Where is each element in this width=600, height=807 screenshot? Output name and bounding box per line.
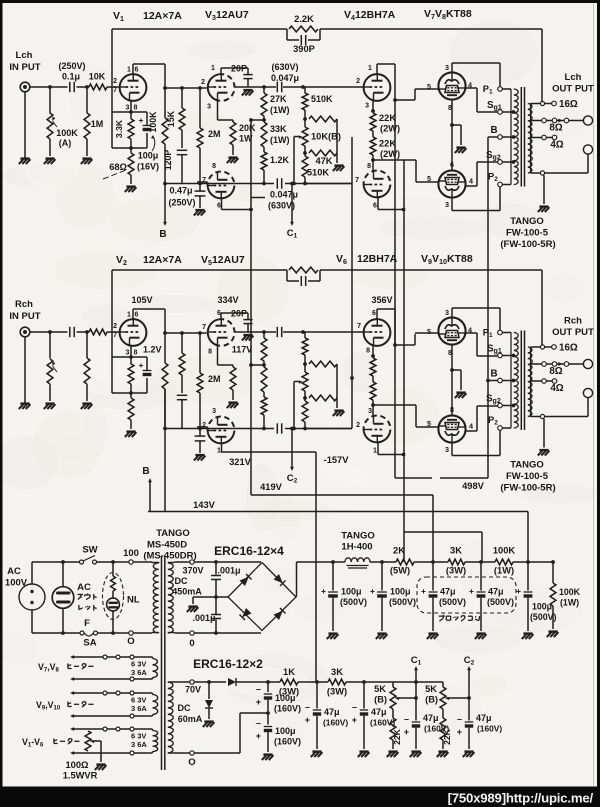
potentiometer 100ohm hum balance xyxy=(85,731,91,751)
svg-text:+: + xyxy=(469,586,474,596)
svg-text:0.47μ: 0.47μ xyxy=(169,186,192,196)
diode bias clamp xyxy=(208,682,210,699)
switch SW xyxy=(80,560,84,564)
resistor Rch cathode 3.3K xyxy=(130,357,132,364)
svg-text:7: 7 xyxy=(202,324,206,331)
resistor Rch grid 2M next stage xyxy=(199,333,201,373)
wire -157V drop line xyxy=(315,452,317,682)
wire Rch B terminal link xyxy=(488,380,498,382)
wire Lch NFB riser to 16ohm tap xyxy=(541,29,543,104)
svg-text:ERC16-12×4: ERC16-12×4 xyxy=(214,544,284,558)
svg-text:4: 4 xyxy=(469,422,473,431)
svg-text:4: 4 xyxy=(469,177,473,186)
svg-text:6: 6 xyxy=(373,203,377,210)
svg-text:20K: 20K xyxy=(239,123,256,133)
capacitor Rch input 0.1u xyxy=(69,327,71,337)
svg-text:(16V): (16V) xyxy=(137,162,159,172)
wire B supply riser with arrow xyxy=(149,481,151,512)
capacitor Rch coupling 0.047u xyxy=(276,327,278,337)
node Rch P1 terminal xyxy=(498,330,503,335)
wire bridge DC- to ground xyxy=(193,596,228,598)
svg-text:SW: SW xyxy=(82,545,97,556)
svg-text:MS-450D: MS-450D xyxy=(147,540,187,551)
wire V3 cathode to 20K xyxy=(217,101,219,120)
wire HV secondary bottom xyxy=(175,632,262,634)
bottom black banner xyxy=(0,787,600,807)
svg-text:+: + xyxy=(370,586,375,596)
capacitor 47u 500V block 1 xyxy=(432,562,434,591)
svg-text:1: 1 xyxy=(368,65,372,72)
svg-text:47μ: 47μ xyxy=(324,707,340,717)
wire heater V1-V6 top xyxy=(72,728,150,730)
svg-text:3 6A: 3 6A xyxy=(131,704,147,713)
svg-text:(160V): (160V) xyxy=(323,718,348,728)
wire 3K to pots xyxy=(346,681,443,683)
capacitor Lch rail bypass 0.47u xyxy=(199,184,201,191)
svg-text:+: + xyxy=(321,586,326,596)
svg-text:1: 1 xyxy=(489,332,493,339)
svg-text:321V: 321V xyxy=(229,457,252,467)
svg-text:3: 3 xyxy=(212,408,216,415)
wire choke to 2K xyxy=(370,561,396,563)
wire Rch rail right extension xyxy=(305,428,352,430)
svg-text:Lch: Lch xyxy=(565,72,582,83)
capacitor Lch coupling 0.047u xyxy=(276,82,278,92)
wire 100K to right node xyxy=(513,561,553,563)
svg-text:+: + xyxy=(139,360,144,370)
resistor 2K 5W xyxy=(396,559,414,565)
ground Lch volume pot xyxy=(45,157,54,159)
svg-text:+: + xyxy=(256,697,261,707)
svg-text:(250V): (250V) xyxy=(168,198,195,208)
tube V5 12AU7 lower section xyxy=(208,433,234,444)
node Lch B terminal xyxy=(498,135,503,140)
wire Lch 22K junction to V8 grid xyxy=(373,159,416,161)
wire Lch 100K bottom to rail xyxy=(164,144,166,184)
svg-text:(630V): (630V) xyxy=(271,62,298,72)
diode bridge D1 xyxy=(240,577,249,586)
wire 419V bus xyxy=(251,494,433,496)
resistor 22K bias 1 xyxy=(392,709,394,718)
wire outlet leads xyxy=(62,562,64,587)
svg-text:7: 7 xyxy=(355,177,359,184)
svg-text:TANGO: TANGO xyxy=(156,528,190,539)
transformer MS-450D HV secondary winding xyxy=(168,563,173,633)
svg-text:1.2V: 1.2V xyxy=(143,345,162,355)
svg-text:47μ: 47μ xyxy=(488,587,504,597)
node C-bias feed C2 xyxy=(290,427,294,431)
resistor Lch NFB 2.2K xyxy=(289,26,318,32)
ground Lch 68ohm xyxy=(126,185,135,187)
paper mottling xyxy=(158,112,238,132)
ground hum pot xyxy=(96,763,105,765)
wire Lch KT88 upper plate to P1 xyxy=(451,63,453,72)
node 100 tap xyxy=(129,560,133,564)
wire Rch NFB bus xyxy=(112,269,287,271)
svg-text:1: 1 xyxy=(217,448,221,455)
ground V5 20P xyxy=(243,334,252,336)
svg-text:15K: 15K xyxy=(166,110,176,127)
right margin scan line xyxy=(593,0,595,786)
svg-text:510K: 510K xyxy=(311,94,333,104)
wire bridge DC+ output xyxy=(296,562,298,597)
svg-text:3.3K: 3.3K xyxy=(114,119,124,138)
svg-text:7: 7 xyxy=(357,323,361,330)
wire Rch V1 plate to coupling node xyxy=(132,309,134,319)
ground Rch volume pot xyxy=(45,402,54,404)
svg-text:(FW-100-5R): (FW-100-5R) xyxy=(500,239,555,250)
capacitor Rch cathode bypass 100u xyxy=(143,370,152,372)
wire V3 plate top to 20P xyxy=(220,68,222,74)
transformer Rch primary winding xyxy=(510,333,512,429)
svg-text:Rch: Rch xyxy=(564,316,582,327)
capacitor Rch rail bypass 0.47u xyxy=(199,429,201,436)
resistor Lch 33K xyxy=(263,116,265,122)
node Rch 8ohm binding post xyxy=(583,359,592,368)
neon lamp NL dashed enclosure xyxy=(103,573,124,620)
svg-text:4Ω: 4Ω xyxy=(550,383,563,394)
resistor Lch bridge top xyxy=(309,116,337,122)
resistor Lch plate load 100K xyxy=(164,88,166,118)
transformer heater winding V9V10 xyxy=(153,695,158,715)
capacitor 47u 160V bias 2 xyxy=(363,682,365,709)
svg-text:27K: 27K xyxy=(270,94,287,104)
wire Lch first stage signal rail xyxy=(165,87,207,89)
tube V1 12AX7 input triode xyxy=(120,74,147,101)
svg-text:8: 8 xyxy=(367,163,371,170)
svg-text:8Ω: 8Ω xyxy=(549,122,562,133)
ground bias clamp xyxy=(204,720,213,722)
svg-text:12BH7A: 12BH7A xyxy=(357,253,398,265)
svg-text:5: 5 xyxy=(427,174,431,183)
ground Rch secondary xyxy=(539,449,548,451)
svg-text:3: 3 xyxy=(445,200,449,209)
capacitor V5 20P xyxy=(243,319,252,321)
wire V6 lower grid stub xyxy=(372,405,374,416)
wire Rch cathode link to lower tube xyxy=(451,370,453,415)
wire V6 lower plate loop xyxy=(377,442,379,454)
wire Lch bias jog xyxy=(251,197,265,199)
tube V4 12BH7A upper xyxy=(364,74,391,101)
svg-text:8: 8 xyxy=(450,405,454,414)
capacitor .001u lower xyxy=(214,631,218,635)
wire Rch lower rail xyxy=(165,428,274,430)
node Lch Sg1 terminal xyxy=(498,110,503,115)
svg-text:47μ: 47μ xyxy=(371,707,387,717)
svg-text:B: B xyxy=(490,125,497,136)
svg-text:6: 6 xyxy=(450,160,454,169)
ground bias cap 2 xyxy=(359,750,368,752)
tube V3 12AU7 lower section xyxy=(208,188,234,199)
svg-text:O: O xyxy=(127,636,134,647)
svg-text:2: 2 xyxy=(113,78,117,85)
wire Lch KT88 upper screen to Sg1 xyxy=(466,87,477,89)
svg-text:+: + xyxy=(139,115,144,125)
svg-text:[750x989]http://upic.me/: [750x989]http://upic.me/ xyxy=(448,791,594,806)
node Lch pot bridge top xyxy=(303,117,307,121)
capacitor 100u 500V third filter xyxy=(527,562,529,591)
resistor Lch feedback 68ohm xyxy=(130,148,132,153)
ground Lch 1M xyxy=(82,157,91,159)
svg-text:419V: 419V xyxy=(260,482,283,492)
resistor Rch 47K bridge bottom xyxy=(309,395,337,401)
svg-text:1.2K: 1.2K xyxy=(270,155,290,165)
svg-text:20P: 20P xyxy=(231,309,247,319)
tube V8 KT88 lower xyxy=(438,170,465,197)
wire diode to doubler xyxy=(236,681,280,683)
svg-text:3: 3 xyxy=(126,105,130,112)
resistor Lch 510K upper xyxy=(304,87,306,93)
resistor Lch 22K lower xyxy=(372,131,374,137)
ground Lch input jack xyxy=(20,157,29,159)
ground C2 cap xyxy=(464,750,473,752)
wire Rch jack ground stem xyxy=(24,337,26,403)
capacitor Lch 120P xyxy=(177,149,187,151)
ground second filter xyxy=(377,632,386,634)
resistor 3K 3W xyxy=(448,559,465,565)
svg-text:33K: 33K xyxy=(270,124,287,134)
svg-text:O: O xyxy=(188,757,195,768)
svg-text:0: 0 xyxy=(189,638,194,649)
ground bleeder xyxy=(548,630,557,632)
wire Lch KT88 upper cathode xyxy=(451,100,453,125)
wire driver B+ branch Rch xyxy=(251,364,264,366)
capacitor 100u 500V second filter xyxy=(380,560,384,564)
node Rch Sg2 terminal xyxy=(498,403,503,408)
wire Lch B terminal link xyxy=(488,136,498,138)
svg-text:47μ: 47μ xyxy=(423,713,439,723)
ground Rch 1M xyxy=(82,402,91,404)
resistor Rch grid leak 1M xyxy=(85,330,89,334)
fuse F xyxy=(80,631,84,635)
wire Lch input to grid xyxy=(30,86,68,88)
ground third filter xyxy=(523,632,532,634)
tube V2 12AX7 input triode xyxy=(120,319,147,346)
scan border frame xyxy=(0,0,600,3)
resistor Rch 33K xyxy=(263,361,265,367)
svg-text:7: 7 xyxy=(202,177,206,184)
svg-text:(2W): (2W) xyxy=(380,124,400,134)
svg-text:8: 8 xyxy=(134,350,138,357)
inductor choke 1H-400 xyxy=(345,558,370,562)
svg-text:8: 8 xyxy=(134,105,138,112)
diode bridge outline xyxy=(228,563,296,631)
wire heater V9V10 top xyxy=(72,692,150,694)
capacitor V3 20P xyxy=(243,74,252,76)
svg-text:12A×7A: 12A×7A xyxy=(143,254,182,266)
resistor Lch 22K upper xyxy=(372,101,374,111)
wire grid-return vertical x=352 linking channels xyxy=(351,184,353,383)
svg-text:60mA: 60mA xyxy=(178,714,203,724)
resistor 3K 3W bias xyxy=(328,679,346,685)
resistor Rch 1.2K xyxy=(263,392,265,397)
svg-text:16Ω: 16Ω xyxy=(559,343,578,354)
svg-text:6: 6 xyxy=(217,203,221,210)
capacitor 100u 160V doubler lower xyxy=(267,713,269,725)
wire Lch KT88 lower plate to P2 xyxy=(451,198,453,211)
resistor Rch 15K decoupling xyxy=(181,333,183,353)
svg-text:0.1μ: 0.1μ xyxy=(62,72,80,82)
resistor 100K 1W xyxy=(495,559,513,565)
wire Rch first stage signal rail xyxy=(165,332,207,334)
resistor Lch 27K xyxy=(263,87,265,93)
svg-text:–: – xyxy=(404,714,409,724)
potentiometer 5K(B) bias 1 xyxy=(392,682,394,687)
svg-text:ERC16-12×2: ERC16-12×2 xyxy=(193,657,263,671)
svg-text:3: 3 xyxy=(445,63,449,72)
svg-text:10K(B): 10K(B) xyxy=(311,132,341,142)
svg-text:47K: 47K xyxy=(315,156,332,166)
ground Lch 47K xyxy=(334,164,343,166)
ground bridge DC- xyxy=(188,605,197,607)
node doubler midpoint xyxy=(266,711,270,715)
svg-text:2: 2 xyxy=(356,78,360,85)
wire heater V7V8 bottom xyxy=(72,678,150,680)
svg-text:-157V: -157V xyxy=(324,455,350,465)
svg-text:12A×7A: 12A×7A xyxy=(143,10,182,22)
potentiometer Rch 10K(B) xyxy=(304,364,306,372)
wire Lch lower rail xyxy=(165,183,274,185)
wire Rch KT88 upper plate to P1 xyxy=(451,308,453,317)
svg-text:5: 5 xyxy=(427,327,431,336)
wire Lch KT88 lower screen to Sg2 xyxy=(466,185,477,187)
ground first filter xyxy=(328,632,337,634)
ground bias cap 1 xyxy=(312,750,321,752)
svg-text:390P: 390P xyxy=(293,44,315,54)
svg-text:(1W): (1W) xyxy=(494,566,514,576)
svg-text:F: F xyxy=(84,618,90,629)
svg-text:3: 3 xyxy=(445,445,449,454)
wire Lch 8ohm tap xyxy=(531,120,584,122)
potentiometer 5K(B) bias 2 xyxy=(442,682,444,687)
tube V6 12BH7A lower xyxy=(364,432,390,443)
svg-text:5K: 5K xyxy=(374,684,386,694)
svg-text:TANGO: TANGO xyxy=(510,460,544,471)
svg-text:5K: 5K xyxy=(425,684,437,694)
node Lch P1 terminal xyxy=(498,87,503,92)
resistor Rch feedback 68ohm xyxy=(130,393,132,398)
svg-text:(500V): (500V) xyxy=(389,597,416,607)
wire heater V7V8 top xyxy=(72,656,150,658)
node 0V tap xyxy=(190,631,194,635)
node 0 tap bias xyxy=(190,751,194,755)
wire Lch NFB bus xyxy=(112,28,287,30)
node 0 tap primary xyxy=(129,631,133,635)
wire heater V9V10 bottom xyxy=(72,715,150,717)
wire AC bottom bus xyxy=(32,632,80,634)
node Rch P2 terminal xyxy=(498,426,503,431)
transformer heater winding V1-V6 xyxy=(153,731,158,752)
wire Rch secondary common xyxy=(531,416,589,418)
svg-text:(2W): (2W) xyxy=(380,149,400,159)
wire heater V1-V6 bottom xyxy=(72,752,150,754)
svg-text:3: 3 xyxy=(365,103,369,110)
svg-text:B: B xyxy=(159,229,166,240)
wire Lch cathode link to lower tube xyxy=(451,125,453,170)
wire V3 lower grid xyxy=(197,181,208,183)
svg-text:22K: 22K xyxy=(379,139,396,149)
svg-text:SA: SA xyxy=(83,638,96,649)
svg-text:3K: 3K xyxy=(331,667,343,677)
svg-text:–: – xyxy=(457,714,462,724)
svg-text:1.5WVR: 1.5WVR xyxy=(63,771,98,781)
ground Lch KT88 cathodes xyxy=(456,146,465,148)
svg-text:3: 3 xyxy=(126,350,130,357)
potentiometer Lch 10K(B) xyxy=(304,119,306,127)
svg-text:V312AU7: V312AU7 xyxy=(205,9,249,22)
ground Rch 20K xyxy=(228,401,237,403)
diode bridge D4 xyxy=(274,611,283,620)
transformer Lch core xyxy=(520,87,522,187)
svg-text:1: 1 xyxy=(211,65,215,72)
svg-text:105V: 105V xyxy=(131,295,152,305)
svg-text:(160V): (160V) xyxy=(274,704,301,714)
capacitor Rch lower rail 0.047u xyxy=(276,423,278,433)
capacitor 47u 160V bias 1 xyxy=(316,682,318,709)
transformer Lch secondary winding xyxy=(530,104,532,174)
node Lch common binding post xyxy=(583,145,592,154)
wire Rch 4ohm tap xyxy=(531,380,553,382)
svg-text:2: 2 xyxy=(202,422,206,429)
svg-text:TANGO: TANGO xyxy=(510,216,544,227)
wire 1K to 3K xyxy=(298,681,328,683)
wire Lch NFB vertical to cathode xyxy=(111,29,113,148)
svg-text:(250V): (250V) xyxy=(58,61,85,71)
resistor Lch grid leak 1M xyxy=(85,85,89,89)
svg-text:2M: 2M xyxy=(208,129,221,139)
wire Rch KT88 upper cathode xyxy=(451,345,453,370)
wire Lch V1 plate to coupling node xyxy=(132,64,134,74)
diode bridge D3 xyxy=(242,608,251,617)
resistor Rch 22K upper xyxy=(372,346,374,356)
svg-text:+: + xyxy=(256,731,261,741)
wire Rch NFB vertical to cathode xyxy=(111,270,113,393)
transformer MS-450D core xyxy=(161,556,163,770)
svg-text:510K: 510K xyxy=(307,168,330,178)
svg-text:IN PUT: IN PUT xyxy=(9,62,40,73)
resistor Rch 20K 1W lower grid xyxy=(232,365,234,367)
wire B supply arrow xyxy=(164,184,166,223)
svg-text:1: 1 xyxy=(127,312,131,319)
svg-text:16Ω: 16Ω xyxy=(559,99,578,110)
wire SW to transformer xyxy=(97,561,153,563)
resistor Lch 20K 1W lower grid xyxy=(232,120,234,122)
svg-text:0.047μ: 0.047μ xyxy=(271,73,299,83)
svg-text:356V: 356V xyxy=(371,295,392,305)
svg-text:3: 3 xyxy=(207,104,211,111)
ground block cap 1 xyxy=(428,632,437,634)
wire AC top bus xyxy=(32,561,80,563)
node Lch Sg2 terminal xyxy=(498,160,503,165)
node C-bias feed C1 xyxy=(290,182,294,186)
svg-text:1K: 1K xyxy=(283,667,295,677)
wire V5 lower plate line 321V xyxy=(221,451,316,453)
svg-text:FW-100-5: FW-100-5 xyxy=(506,471,549,482)
wire V4 lower plate loop xyxy=(377,197,379,209)
wire Rch V4 grid wire xyxy=(303,331,364,333)
resistor Lch 1.2K xyxy=(263,147,265,152)
label block capacitor katakana xyxy=(439,615,444,617)
wire NL leads xyxy=(112,562,114,573)
svg-text:(1W): (1W) xyxy=(270,135,290,145)
capacitor 47u 500V block 2 xyxy=(480,562,482,591)
svg-text:100μ: 100μ xyxy=(341,587,362,597)
wire 2K to 3K xyxy=(414,561,448,563)
svg-text:TANGO: TANGO xyxy=(341,531,375,542)
resistor Lch grid stop 10K xyxy=(89,84,107,90)
resistor Lch 510K lower xyxy=(304,153,306,156)
svg-text:3 6A: 3 6A xyxy=(131,740,147,749)
